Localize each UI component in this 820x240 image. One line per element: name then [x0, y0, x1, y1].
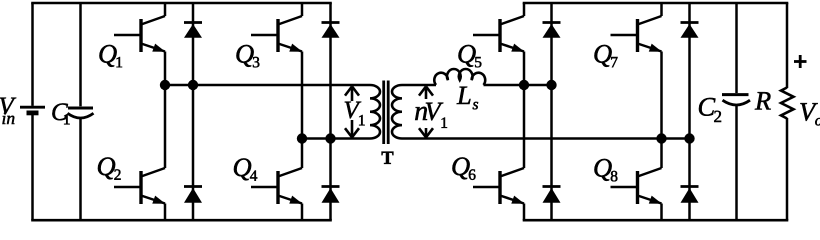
transistor Q8: [611, 168, 663, 220]
diode D2: [184, 187, 202, 203]
label Q4: [234, 158, 257, 180]
label Q1: [99, 45, 122, 67]
wire diode column x=551.5: [550, 3, 553, 220]
wire secondary bottom lead to legB midpoint: [402, 137, 690, 140]
resistor R: [781, 3, 794, 220]
transformer core: [384, 81, 389, 145]
node leg1 midpoint: [160, 80, 170, 90]
capacitor C2: [722, 3, 750, 220]
label Vo: [800, 103, 820, 125]
wire leg1 emitter-collector column segments: [164, 52, 167, 86]
wire right box top rail: [523, 2, 789, 5]
diode D5: [543, 23, 561, 38]
voltage marker nV1 arrow: [419, 86, 433, 137]
battery Vin source: [20, 3, 45, 220]
wire leg2 emitter-collector column segments: [301, 52, 304, 139]
node diode1 midpoint: [188, 80, 198, 90]
label Q2: [98, 157, 121, 179]
diode D6: [543, 187, 561, 203]
wire diode column x=193: [192, 3, 195, 220]
transistor Q4: [251, 168, 303, 220]
label Q3: [236, 45, 259, 67]
wire left box top rail: [31, 2, 332, 5]
capacitor C1: [68, 3, 94, 220]
voltage marker V1 arrow: [345, 86, 359, 137]
node legA midpoint: [519, 80, 529, 90]
wire legA column segments: [523, 52, 526, 86]
diode D4: [322, 187, 340, 203]
wire right box bottom rail: [523, 219, 789, 222]
label Q7: [594, 45, 617, 67]
wire diode column x=330.5: [329, 3, 332, 220]
transistor Q3: [251, 3, 303, 52]
diode D7: [681, 23, 699, 38]
label Q6: [452, 157, 475, 179]
wire Ls to right bridge legA midpoint: [484, 84, 552, 87]
node leg2 midpoint: [297, 133, 307, 143]
label Q5: [458, 45, 481, 67]
node diodeA midpoint: [546, 80, 556, 90]
label R: [755, 92, 771, 109]
label Vin: [0, 98, 16, 124]
transistor Q6: [473, 168, 525, 220]
node legB midpoint: [656, 133, 666, 143]
transformer T secondary winding: [392, 85, 402, 139]
label T: [382, 152, 394, 164]
label C2: [699, 98, 721, 122]
diode D3: [322, 23, 340, 38]
label Q8: [594, 159, 617, 181]
wire leg1 midpoint to transformer primary top: [165, 84, 370, 87]
wire diode column x=689.5: [688, 3, 691, 220]
wire legB column segments: [660, 52, 663, 139]
transistor Q1: [114, 3, 166, 52]
transistor Q2: [114, 168, 166, 220]
transistor Q5: [473, 3, 525, 52]
node diode2 midpoint: [325, 133, 335, 143]
wire secondary top lead: [402, 84, 436, 87]
transistor Q7: [611, 3, 663, 52]
label nV1: [415, 103, 447, 128]
label Ls: [457, 87, 478, 110]
label C1: [52, 103, 69, 124]
plus sign output polarity: [794, 55, 807, 68]
inductor Ls: [434, 69, 485, 85]
label V1: [345, 102, 365, 126]
diode D8: [681, 187, 699, 203]
diode D1: [184, 23, 202, 38]
transformer T primary winding: [370, 85, 380, 139]
wire leg2 midpoint to transformer primary bottom: [302, 137, 370, 140]
node diodeB midpoint: [684, 133, 694, 143]
wire left box bottom rail: [31, 219, 332, 222]
